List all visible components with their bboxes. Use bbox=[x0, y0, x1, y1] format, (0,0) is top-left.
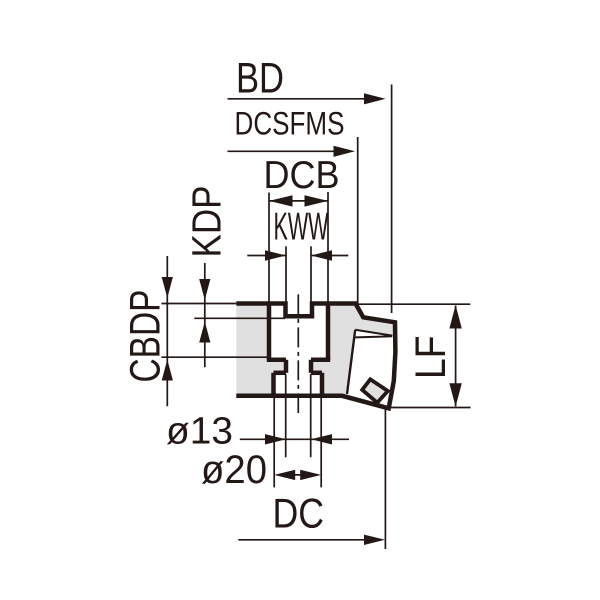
o20 top right segment bbox=[311, 371, 322, 376]
dimension line KWW with arrows bbox=[247, 250, 348, 260]
insert top wedge line upper bbox=[355, 330, 392, 336]
dimension line DC bbox=[238, 535, 385, 545]
label DCB bbox=[264, 154, 340, 197]
label CBDP rotated bbox=[121, 290, 169, 383]
o20 left wall bbox=[271, 373, 276, 396]
dimension line o13 with arrows bbox=[240, 434, 349, 444]
svg-text:DC: DC bbox=[273, 490, 325, 536]
label o20 bbox=[201, 448, 267, 492]
insert screw square bbox=[362, 379, 388, 402]
label BD bbox=[236, 54, 284, 101]
extension line KWW left bbox=[285, 246, 287, 302]
KDP upper arrowhead bbox=[199, 279, 210, 300]
extension line o20 right bbox=[320, 397, 322, 487]
extension line top surface bbox=[161, 303, 236, 305]
CBDP arrow line bbox=[166, 256, 168, 406]
o20 top left segment bbox=[274, 371, 287, 376]
extension line o13 left bbox=[285, 374, 287, 457]
insert pocket void bbox=[347, 330, 394, 407]
insert left edge bbox=[347, 330, 355, 394]
counterbore o20 void bbox=[274, 373, 323, 396]
bore right wall bbox=[309, 360, 314, 373]
extension line DCSFMS bbox=[357, 137, 359, 307]
counterbore right wall bbox=[326, 306, 331, 360]
extension line LF top bbox=[356, 303, 470, 305]
CBDP lower arrowhead bbox=[162, 360, 173, 381]
bore o13 void bbox=[286, 360, 311, 373]
svg-text:DCB: DCB bbox=[264, 154, 340, 197]
extension line KWW right bbox=[310, 246, 312, 302]
extension line DCB right bbox=[327, 192, 329, 305]
extension line DC bbox=[384, 408, 386, 550]
dimension line LF with arrows bbox=[449, 305, 461, 407]
extension line CBDP bottom bbox=[161, 356, 269, 358]
svg-text:LF: LF bbox=[407, 336, 454, 380]
label DC bbox=[273, 490, 325, 536]
dimension line DCSFMS bbox=[228, 146, 356, 157]
svg-text:BD: BD bbox=[236, 54, 284, 101]
counterbore bottom left segment bbox=[267, 358, 286, 363]
CBDP upper arrowhead bbox=[162, 277, 173, 298]
counterbore bottom right segment bbox=[311, 358, 330, 363]
label o13 bbox=[166, 411, 233, 453]
dimension line DCB with arrows bbox=[269, 195, 328, 206]
svg-text:ø20: ø20 bbox=[201, 448, 267, 492]
extension line LF bottom bbox=[388, 407, 471, 409]
label KWW bbox=[274, 205, 329, 248]
svg-text:KWW: KWW bbox=[274, 205, 329, 248]
dimension line BD bbox=[228, 93, 386, 104]
bore left wall bbox=[284, 360, 289, 373]
center line bbox=[297, 294, 299, 413]
KDP lower arrowhead bbox=[199, 322, 210, 343]
label LF rotated bbox=[407, 336, 454, 380]
dimension line o20 with arrows bbox=[274, 470, 321, 480]
label KDP rotated bbox=[183, 186, 229, 258]
counterbore left wall bbox=[267, 306, 272, 360]
o20 right wall bbox=[320, 373, 325, 396]
extension line o13 right bbox=[310, 374, 312, 457]
svg-text:DCSFMS: DCSFMS bbox=[235, 105, 345, 142]
KDP arrow line bbox=[204, 263, 206, 367]
body gray silhouette bbox=[236, 304, 395, 409]
counterbore DCB void bbox=[269, 304, 328, 360]
extension line o20 left bbox=[273, 397, 275, 487]
svg-text:KDP: KDP bbox=[183, 186, 229, 258]
body outline with keyway slot bbox=[236, 304, 395, 409]
extension line keyway bottom bbox=[194, 317, 285, 319]
svg-text:ø13: ø13 bbox=[166, 411, 233, 453]
extension line DCB left bbox=[268, 193, 270, 306]
insert top wedge line lower bbox=[355, 336, 392, 337]
svg-text:CBDP: CBDP bbox=[121, 290, 169, 383]
extension line BD bbox=[391, 85, 393, 314]
label DCSFMS bbox=[235, 105, 345, 142]
